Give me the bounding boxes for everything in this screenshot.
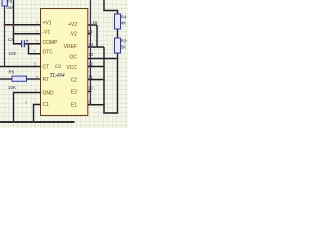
svg-text:16: 16 xyxy=(93,20,98,25)
junction dots xyxy=(4,24,119,123)
wire GND xyxy=(14,93,41,123)
svg-text:12: 12 xyxy=(89,62,94,67)
svg-text:R5: R5 xyxy=(9,70,15,75)
svg-text:13: 13 xyxy=(89,52,94,57)
svg-text:C2: C2 xyxy=(71,78,78,84)
resistor R9 top-left xyxy=(2,0,8,6)
wire C1 xyxy=(34,105,41,123)
svg-text:R4: R4 xyxy=(121,15,127,20)
svg-text:15: 15 xyxy=(88,29,93,34)
svg-text:4K: 4K xyxy=(121,21,127,26)
svg-text:5K: 5K xyxy=(121,45,127,50)
wire +V2 xyxy=(88,24,97,26)
capacitor C4 xyxy=(22,40,29,48)
wire -V2 xyxy=(88,33,91,35)
wire C2 xyxy=(88,79,104,81)
wire ground bus bottom xyxy=(0,121,75,123)
svg-text:CT: CT xyxy=(43,64,50,70)
svg-text:C4: C4 xyxy=(8,37,14,42)
svg-text:R9: R9 xyxy=(7,0,13,4)
svg-text:+V1: +V1 xyxy=(43,21,52,27)
IC pin name labels xyxy=(43,21,78,109)
svg-text:C1: C1 xyxy=(43,102,50,108)
wire R3 bottom lead xyxy=(117,53,119,59)
op-amp U2 IC body TL494 xyxy=(41,9,88,116)
svg-text:OC: OC xyxy=(70,55,78,61)
component value labels xyxy=(7,0,128,90)
wire -V1 xyxy=(14,33,41,35)
resistor R4 xyxy=(115,14,121,29)
wire COMP xyxy=(24,43,40,45)
svg-text:+V2: +V2 xyxy=(68,22,77,28)
svg-text:COMP: COMP xyxy=(43,40,59,46)
svg-text:E2: E2 xyxy=(71,90,77,96)
svg-text:10: 10 xyxy=(88,86,93,91)
svg-text:14: 14 xyxy=(89,42,94,47)
wire +V2 to VREF link xyxy=(96,25,98,47)
resistor R3 xyxy=(115,38,121,53)
wire vertical left bus to C4 xyxy=(14,0,22,44)
background xyxy=(0,0,128,128)
right pin numbers xyxy=(88,20,98,104)
svg-text:VCC: VCC xyxy=(66,65,77,71)
wire RT left lead xyxy=(0,78,12,80)
wire DTC xyxy=(29,44,41,54)
wire VCC xyxy=(88,66,104,68)
svg-text:VREF: VREF xyxy=(64,44,77,50)
svg-text:10K: 10K xyxy=(8,85,16,90)
svg-text:-V1: -V1 xyxy=(43,30,51,36)
wire R4-R3 link xyxy=(117,29,119,38)
svg-text:04K: 04K xyxy=(7,5,15,10)
wire vertical from R9 xyxy=(4,6,6,67)
wire right bus xyxy=(90,0,92,105)
wire E1 xyxy=(88,104,104,106)
svg-text:GND: GND xyxy=(43,90,55,96)
svg-text:-V2: -V2 xyxy=(69,32,77,38)
left pin numbers xyxy=(25,20,39,105)
wire OC xyxy=(88,58,118,60)
wire VREF xyxy=(88,46,104,48)
svg-text:DTC: DTC xyxy=(43,50,54,56)
svg-text:TL494: TL494 xyxy=(50,72,65,79)
wire RT right lead xyxy=(27,78,41,80)
svg-text:E1: E1 xyxy=(71,103,77,109)
svg-text:11: 11 xyxy=(89,75,94,80)
svg-text:U2: U2 xyxy=(55,64,62,70)
svg-text:R3: R3 xyxy=(121,39,127,44)
wire E2 xyxy=(88,91,91,93)
wire top net to R4 xyxy=(104,0,118,14)
svg-text:RT: RT xyxy=(43,77,50,83)
wire +V1 xyxy=(5,24,41,26)
resistor R5 xyxy=(12,76,27,81)
wire VREF net vertical xyxy=(104,47,118,113)
svg-text:102: 102 xyxy=(9,51,17,56)
wire CT long xyxy=(0,66,41,68)
